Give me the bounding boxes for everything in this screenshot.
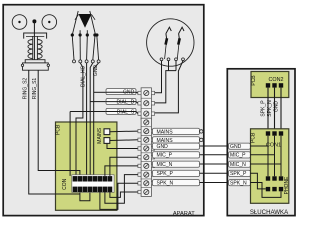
- wire MAINS1 to screw: [110, 130, 138, 133]
- dial wire to terminal 2: [79, 37, 81, 60]
- PCB CON1 board (handset bottom): [251, 129, 289, 204]
- svg-text:SPK_N: SPK_N: [230, 180, 247, 186]
- wire RING_S2 stub to CON pin: [79, 191, 81, 194]
- SLUCHAWKA side net label MIC_P: [229, 152, 275, 159]
- svg-text:MAINS: MAINS: [157, 129, 174, 135]
- svg-text:CON: CON: [62, 178, 68, 190]
- hook lever 2: [177, 27, 184, 59]
- hook lever 1: [165, 27, 172, 59]
- wire dial terminal3 down (DIAL_S net): [86, 63, 88, 176]
- wire dial terminal2 down with left step: [76, 63, 83, 176]
- wire CON pin8 up to MIC_P screw: [110, 157, 138, 176]
- wire SPK_P route to PHONE row2: [250, 173, 266, 189]
- strip A screw 3: [144, 111, 149, 116]
- svg-text:MIC_N: MIC_N: [157, 162, 173, 168]
- wire GND tap to CON1 column: [250, 145, 268, 147]
- dial wire to terminal 5: [97, 37, 99, 60]
- net label SPK_N: [153, 180, 228, 187]
- svg-text:SPK_P: SPK_P: [230, 171, 247, 177]
- svg-text:DIAL_D: DIAL_D: [116, 99, 134, 105]
- SLUCHAWKA side net label MIC_N: [229, 161, 281, 168]
- wire CON bottom col6 to SPK_N screw: [100, 183, 138, 209]
- wire CON1 pin2 down to PHONE: [274, 136, 276, 177]
- svg-text:SŁUCHAWKA: SŁUCHAWKA: [250, 209, 289, 216]
- ringer coil yoke top flange: [24, 33, 47, 39]
- dial wire to terminal 1: [72, 37, 74, 60]
- dial contact stub 3: [86, 30, 88, 35]
- dial lever right: [90, 11, 96, 35]
- svg-text:SPK_P: SPK_P: [157, 171, 174, 177]
- net label MAINS 2: [153, 137, 204, 144]
- clapper dot: [32, 19, 36, 23]
- wire CON pin7 up to MIC_N screw: [105, 166, 138, 176]
- svg-text:GND: GND: [157, 144, 169, 150]
- strip A screw 1: [144, 90, 149, 95]
- svg-text:PCB: PCB: [56, 124, 62, 135]
- wire GND branch: [94, 91, 106, 93]
- net label SPK_P: [153, 170, 228, 177]
- net label MIC_P: [153, 152, 228, 159]
- svg-text:MIC_P: MIC_P: [230, 153, 246, 159]
- dial terminal 3: [85, 60, 88, 63]
- APARAT enclosure box: [3, 5, 204, 216]
- dial lever left: [72, 11, 78, 35]
- svg-text:PCB: PCB: [250, 132, 256, 143]
- hook terminal 1: [160, 58, 163, 61]
- dial terminal 1: [73, 60, 76, 63]
- svg-text:SPK_N: SPK_N: [157, 180, 174, 186]
- wire hook t4 to screw3: [155, 61, 183, 113]
- CON2 pin 2: [272, 83, 276, 87]
- wire CON2 to CON1 SPK_N: [274, 88, 276, 132]
- dial wire to terminal 4: [93, 37, 95, 60]
- svg-text:MIC_P: MIC_P: [157, 153, 173, 159]
- dial contact dot 2: [79, 33, 82, 36]
- net label GND (handset): [153, 143, 228, 150]
- dial terminal 4: [91, 60, 94, 63]
- dial contact dot 3: [86, 33, 89, 36]
- ringer core columns: [32, 36, 34, 59]
- svg-text:APARAT: APARAT: [173, 211, 195, 217]
- hook terminal 3: [175, 58, 178, 61]
- net label GND (left of strip A): [106, 89, 138, 96]
- MAINS connector square 1: [104, 129, 110, 135]
- svg-text:PCB: PCB: [251, 75, 257, 86]
- ringer base pivot right: [47, 64, 49, 66]
- wire MIC_P tap to CON1 column: [250, 154, 274, 156]
- wire MAINS2 to screw: [110, 139, 138, 142]
- CON1 pin 3: [279, 131, 283, 135]
- hook switch circle: [147, 19, 194, 66]
- svg-text:GND: GND: [230, 144, 242, 150]
- terminal strip B body: [141, 118, 151, 196]
- wire CON1 pin1 down to PHONE: [267, 136, 269, 177]
- wire DIAL_S branch with left leg: [70, 111, 106, 113]
- CON2 pin 3: [279, 83, 283, 87]
- svg-text:RING_S1: RING_S1: [32, 78, 38, 100]
- wire dial terminal4 down (DIAL_D net): [90, 63, 93, 176]
- PCB CON2 board (handset top): [251, 72, 289, 98]
- SLUCHAWKA side net label SPK_N: [229, 180, 251, 187]
- PCB (left, APARAT main board): [56, 122, 117, 210]
- bell gong left: [12, 15, 27, 30]
- wire CON2 to CON1 SPK_P: [267, 88, 269, 132]
- CON1 pin 1: [266, 131, 270, 135]
- MAINS connector square 2: [104, 138, 110, 144]
- dial terminal 2: [79, 60, 82, 63]
- net label DIAL_D: [106, 99, 138, 106]
- wire RING_S2: [29, 70, 80, 194]
- strip A tabs: [138, 91, 141, 94]
- SLUCHAWKA enclosure box: [227, 69, 295, 216]
- wire CON bottom col8 to screw9: [110, 191, 138, 197]
- ringer coil bottom flange: [25, 60, 45, 63]
- strip B tabs left: [138, 129, 141, 132]
- wire hook t3 stub: [175, 61, 177, 71]
- svg-text:MIC_N: MIC_N: [230, 162, 246, 168]
- CON pins top row: [73, 176, 78, 181]
- svg-text:GND: GND: [123, 90, 135, 96]
- svg-text:MAINS: MAINS: [97, 127, 103, 144]
- wire hook t2 stub: [168, 61, 170, 71]
- wire SPK_N route to PHONE row2: [250, 183, 281, 198]
- ringer coil right winding: [38, 40, 42, 59]
- strip A screw 2: [144, 101, 149, 106]
- dial terminal 5: [97, 60, 100, 63]
- svg-text:RING_S2: RING_S2: [22, 78, 28, 100]
- svg-text:PHONE: PHONE: [284, 176, 290, 194]
- net label MIC_N: [153, 161, 228, 168]
- CON1 pin 2: [272, 131, 276, 135]
- CON2 pin 1: [266, 83, 270, 87]
- clapper rod wire: [33, 21, 35, 62]
- wire RING_S1: [38, 70, 80, 176]
- bell gong right: [42, 15, 57, 30]
- ringer base: [23, 63, 49, 70]
- strip B tabs right: [151, 129, 154, 132]
- wire CON1 pin3 down to PHONE: [280, 136, 282, 177]
- dial contact stub 2: [79, 30, 81, 35]
- CON connector strip (left PCB): [72, 175, 114, 193]
- hook terminal 4: [182, 58, 185, 61]
- dial wire to terminal 3: [86, 37, 89, 60]
- svg-text:DIAL_S: DIAL_S: [117, 109, 135, 115]
- SLUCHAWKA side net label GND: [229, 143, 268, 150]
- wire dial terminal5 down (GND net): [94, 63, 99, 176]
- wire MIC_N tap to CON1 column: [250, 163, 281, 165]
- wire CON bottom col7 to SPK_P screw: [105, 175, 138, 204]
- wire DIAL_D branch: [90, 101, 106, 103]
- PHONE connector pins row2: [266, 187, 270, 191]
- ringer coil left winding: [28, 40, 32, 59]
- CON pins bottom row: [73, 187, 78, 192]
- wire MAINS square2 down to GND screw: [107, 143, 138, 148]
- wire CON2 to CON1 GND: [280, 88, 282, 132]
- svg-text:SPK_N: SPK_N: [267, 100, 273, 117]
- hook terminal 2: [167, 58, 170, 61]
- SLUCHAWKA side net label SPK_P: [229, 170, 251, 177]
- svg-text:GND: GND: [273, 101, 279, 113]
- strip B screws: [144, 120, 149, 125]
- svg-text:CON2: CON2: [269, 77, 284, 83]
- ringer base pivot left: [21, 64, 23, 66]
- wire hook bracket to screw2: [155, 71, 176, 103]
- dial contact dot 4: [93, 33, 96, 36]
- wire hook t1 to screw1: [155, 61, 162, 93]
- wire left leg down: [69, 112, 71, 176]
- dial contact dot 5: [95, 33, 98, 36]
- dial contact dot 1: [71, 33, 74, 36]
- net label MAINS 1 (right of strip): [153, 128, 204, 135]
- PHONE connector pins row1: [266, 176, 270, 180]
- terminal strip A body: [141, 88, 151, 119]
- net label DIAL_S: [106, 108, 138, 115]
- wire bottom loop from CON pin: [80, 191, 90, 201]
- svg-text:SPK_P: SPK_P: [260, 100, 266, 117]
- dial pawl triangle: [79, 14, 92, 28]
